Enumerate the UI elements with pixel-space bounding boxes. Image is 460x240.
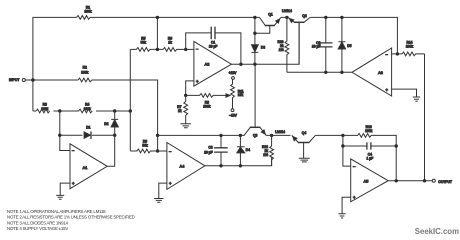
resistor R10 2k — [285, 17, 289, 72]
svg-text:LM114: LM114 — [275, 130, 285, 134]
node: Q1 base junction — [253, 32, 256, 35]
resistor R6 1k — [157, 48, 185, 52]
svg-text:100k: 100k — [203, 104, 211, 108]
node: rail tap junction — [156, 16, 159, 19]
svg-text:A1: A1 — [83, 166, 88, 170]
node: A5 summing junction — [341, 134, 344, 137]
potentiometer R11 10k — [231, 77, 244, 112]
diode D5 — [338, 17, 351, 72]
wire: A1 non-inverting input — [60, 183, 70, 195]
svg-text:LM114: LM114 — [282, 9, 292, 13]
node: R12 top junction — [270, 134, 273, 137]
node: C2 top — [324, 16, 327, 19]
resistor R13 100k — [343, 134, 396, 181]
wire: A5 output line — [388, 180, 432, 182]
capacitor C4 — [343, 142, 396, 160]
wire: input terminal lead — [25, 80, 157, 135]
resistor R8 100k to wiper — [186, 94, 226, 98]
svg-text:D5: D5 — [347, 44, 351, 48]
node: A2 plus node — [184, 94, 187, 97]
wire: A4 non-inverting input — [159, 183, 167, 198]
svg-text:100k: 100k — [406, 44, 414, 48]
op-amp A3 — [352, 48, 392, 96]
wire: Q4 collector to A5 node — [315, 134, 343, 136]
svg-text:C3: C3 — [208, 146, 212, 150]
svg-text:A3: A3 — [378, 71, 383, 75]
wire: A3 output line — [287, 71, 352, 73]
node: output R14 junction — [423, 179, 426, 182]
svg-text:1k: 1k — [178, 109, 182, 113]
resistor R9 50k — [130, 149, 157, 153]
svg-text:D4: D4 — [246, 148, 250, 152]
node: A3 minus junction — [396, 52, 399, 55]
node: A4 fb junction — [156, 134, 159, 137]
svg-text:−15V: −15V — [229, 114, 238, 118]
node: C3 top — [219, 134, 222, 137]
resistor R5 50k — [130, 48, 157, 52]
svg-text:D3: D3 — [261, 46, 265, 50]
svg-text:100k: 100k — [84, 9, 92, 13]
node: D5 top — [340, 16, 343, 19]
svg-text:SeekIC.com: SeekIC.com — [415, 227, 459, 236]
resistor R14 100k — [402, 52, 425, 56]
node: D4 bottom — [239, 164, 242, 167]
svg-text:A2: A2 — [205, 63, 210, 67]
wire: R2 to A4 node vertical — [157, 135, 159, 151]
node: D5 bottom — [340, 71, 343, 74]
ground (A5 +) — [338, 214, 345, 218]
svg-text:R2: R2 — [83, 65, 87, 69]
svg-text:Q2: Q2 — [302, 14, 307, 18]
transistor Q4 — [292, 131, 316, 158]
node: C4 right — [395, 144, 398, 147]
transistor Q2 — [288, 14, 310, 64]
svg-text:1%: 1% — [263, 153, 268, 157]
op-amp A1 — [70, 144, 107, 189]
svg-text:NOTE 1 ALL OPERATIONAL AMPLIF: NOTE 1 ALL OPERATIONAL AMPLIFIERS ARE LM… — [7, 209, 106, 214]
svg-text:100k: 100k — [84, 107, 92, 111]
resistor R3 — [36, 109, 50, 113]
svg-text:50k: 50k — [142, 143, 148, 147]
svg-text:Q1: Q1 — [268, 13, 273, 17]
wire: A4 output line — [205, 157, 272, 166]
node: C3 bottom — [219, 164, 222, 167]
wire: A1 inverting input — [60, 111, 83, 151]
svg-text:1 μF: 1 μF — [366, 156, 373, 160]
wire: A5 non-inverting input — [342, 197, 351, 213]
svg-text:NOTE 3 ALL DIODES ARE 1N914: NOTE 3 ALL DIODES ARE 1N914 — [7, 220, 69, 225]
resistor R1 — [77, 15, 91, 19]
ground (R7) — [180, 119, 191, 128]
wire: R14 feedback vertical — [424, 54, 426, 181]
capacitor C2 — [312, 17, 333, 72]
node: D3 bottom junction — [253, 62, 256, 65]
svg-text:+15V: +15V — [229, 71, 238, 75]
svg-text:A4: A4 — [180, 164, 185, 168]
wire: R4 to R6 R9 vertical — [129, 49, 131, 151]
capacitor C3 — [204, 135, 228, 165]
node: D4 top — [239, 134, 242, 137]
node: input junction — [31, 78, 35, 82]
svg-text:R3: R3 — [43, 102, 47, 106]
wire: A3 inverting input stub — [392, 53, 402, 55]
svg-text:R4: R4 — [85, 102, 89, 106]
wire: A4 feedback line — [158, 134, 245, 136]
svg-text:NOTE 2 ALL RESISTORS ARE 1% U: NOTE 2 ALL RESISTORS ARE 1% UNLESS OTHER… — [7, 215, 135, 220]
node: C2 bottom — [324, 71, 327, 74]
wire: A2 non-inverting input — [186, 81, 194, 96]
svg-text:50k: 50k — [141, 41, 147, 45]
resistor R4 — [79, 109, 93, 113]
svg-text:100k: 100k — [41, 107, 49, 111]
diode D4 — [237, 135, 250, 165]
svg-text:10 μF: 10 μF — [312, 45, 321, 49]
op-amp A4 — [167, 143, 205, 190]
wire: input net top rail — [33, 17, 260, 111]
svg-text:A5: A5 — [364, 179, 369, 183]
svg-text:INPUT: INPUT — [9, 78, 20, 82]
transistor Q1 — [255, 13, 281, 34]
wire: rail tap to R5 R6 junction — [156, 17, 158, 49]
svg-text:D2: D2 — [104, 122, 108, 126]
wire: top rail right — [281, 17, 397, 54]
diode D3 — [252, 45, 266, 64]
ground (A4 +) — [154, 199, 163, 203]
notes text — [7, 209, 135, 231]
wire: D3 vertical from rail — [254, 17, 256, 44]
input terminal — [22, 79, 25, 82]
svg-text:1k: 1k — [168, 41, 172, 45]
wire: A1 output and feedback — [92, 135, 115, 166]
svg-text:D1: D1 — [86, 126, 90, 130]
node: A2 inverting input junction — [184, 48, 187, 51]
svg-text:100k: 100k — [81, 71, 89, 75]
transistor Q3 — [244, 64, 266, 137]
node: D2 top junction — [113, 109, 116, 112]
node: C4 left — [341, 144, 344, 147]
svg-text:100k: 100k — [365, 129, 373, 133]
wire: A4 inverting input stub — [158, 150, 167, 152]
ground (Q4 base) — [299, 158, 310, 162]
node: A4 minus junction — [156, 149, 159, 152]
svg-text:10 pF: 10 pF — [209, 44, 217, 48]
ground (A3 +) — [413, 97, 420, 101]
potentiometer R11 wiper arrow — [226, 94, 230, 97]
wire: A5 summing vertical — [343, 135, 351, 166]
svg-text:10 μF: 10 μF — [204, 150, 213, 154]
svg-text:OUTPUT: OUTPUT — [438, 180, 452, 184]
wire: emitter line bottom pair — [266, 134, 290, 136]
svg-text:1%: 1% — [279, 48, 284, 52]
svg-text:NOTE 4 SUPPLY VOLTAGE ±15V: NOTE 4 SUPPLY VOLTAGE ±15V — [7, 226, 68, 231]
node: rail D3 junction — [253, 16, 256, 19]
svg-text:10k: 10k — [238, 93, 244, 97]
node: common emitters junction — [285, 16, 288, 19]
resistor R2 — [78, 78, 92, 82]
capacitor C1 — [186, 27, 241, 65]
svg-text:Q4: Q4 — [302, 131, 307, 135]
resistor R7 1k vertical — [184, 95, 188, 118]
wire: A2 output line — [231, 22, 299, 64]
resistor R12 2k — [270, 135, 274, 165]
diode D2 — [104, 111, 118, 135]
output terminal — [432, 179, 435, 182]
node: C1 right junction — [239, 62, 242, 65]
diode D1 — [84, 126, 91, 139]
wire: A3 non-inverting input — [392, 89, 417, 97]
node: A1 fb left junction — [58, 134, 61, 137]
node: R3 R4 junction — [58, 109, 61, 112]
node: output fb junction — [395, 179, 398, 182]
ground (A1 +) — [56, 195, 64, 199]
wire: A2 inverting input stub — [186, 48, 194, 50]
op-amp A2 — [194, 41, 232, 86]
node: R5 R6 junction — [156, 48, 159, 51]
wire: lower input branch R3 R4 line — [33, 110, 130, 112]
node: A1 fb right junction — [113, 134, 116, 137]
op-amp A5 — [351, 159, 389, 202]
node: R4 line T junction — [129, 109, 132, 112]
svg-text:Q3: Q3 — [253, 134, 258, 138]
